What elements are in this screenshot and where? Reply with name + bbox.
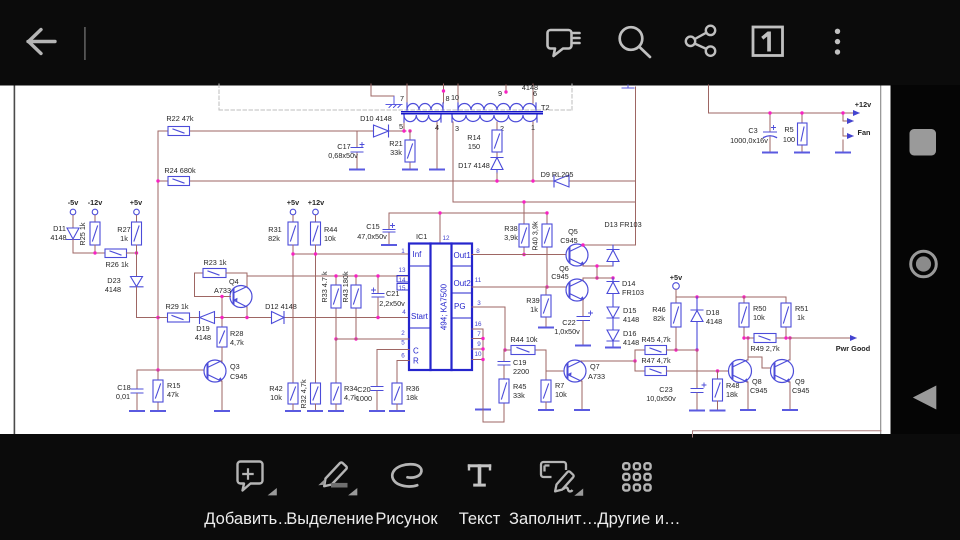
ground R48: [711, 410, 725, 412]
svg-text:+12v: +12v: [308, 198, 325, 207]
top bar divider: [84, 27, 86, 60]
svg-text:0,01: 0,01: [116, 392, 130, 401]
svg-text:9: 9: [498, 89, 502, 98]
toolbar fill-sign icon: [541, 462, 574, 491]
svg-text:C945: C945: [551, 272, 568, 281]
nav back triangle: [913, 386, 937, 410]
svg-text:T2: T2: [541, 103, 550, 112]
ground R7: [539, 409, 553, 411]
svg-text:A733: A733: [588, 372, 605, 381]
diode D17: [491, 158, 503, 174]
svg-text:11: 11: [475, 277, 482, 284]
wire Q5 emitter row y266: [583, 265, 613, 278]
isolation boundary dashed box: [219, 84, 572, 110]
transformer core: [402, 112, 542, 114]
svg-text:Рисунок: Рисунок: [375, 510, 438, 528]
svg-text:10k: 10k: [555, 390, 567, 399]
svg-text:C20: C20: [357, 385, 370, 394]
diode D13: [607, 245, 619, 266]
capacitor C19: [498, 350, 529, 379]
capacitor C15: [357, 213, 395, 244]
svg-text:D13 FR103: D13 FR103: [604, 220, 641, 229]
svg-text:10: 10: [451, 93, 459, 102]
wire R26 to D23 column: [127, 252, 137, 254]
diode D15: [607, 307, 619, 330]
wire Pwr Good: [776, 337, 855, 339]
wire +5v rail y297: [676, 296, 786, 298]
svg-text:D12 4148: D12 4148: [265, 302, 297, 311]
resistor R26: [105, 249, 129, 269]
junction dots +12v rail: [768, 111, 771, 114]
resistor R34: [331, 339, 358, 411]
wire pin4 ground stub: [436, 122, 438, 170]
svg-text:R45 4,7k: R45 4,7k: [641, 335, 671, 344]
diode D16: [607, 330, 619, 347]
svg-text:1k: 1k: [120, 234, 128, 243]
svg-text:47k: 47k: [167, 390, 179, 399]
svg-text:R34: R34: [344, 384, 357, 393]
capacitor C22: [554, 311, 592, 345]
resistor R7: [541, 380, 567, 410]
svg-text:R7: R7: [555, 381, 564, 390]
resistor R51: [781, 297, 808, 338]
resistor R25: [78, 222, 100, 253]
ground Fan: [836, 152, 850, 154]
svg-text:R14: R14: [467, 133, 480, 142]
transistor Q8: [729, 360, 752, 383]
resistor R40: [531, 213, 553, 287]
node +5v terminal right: [670, 273, 683, 297]
svg-text:4148: 4148: [50, 233, 66, 242]
resistor R49: [750, 334, 780, 354]
wire IC pin6 y357: [397, 360, 409, 383]
svg-text:1000,0x16v: 1000,0x16v: [730, 136, 768, 145]
back arrow icon: [28, 30, 55, 54]
svg-text:1k: 1k: [530, 305, 538, 314]
wire pin3 down to y202: [453, 122, 636, 202]
svg-text:16: 16: [474, 321, 482, 328]
diode D12: [272, 312, 285, 324]
resistor R42: [269, 383, 298, 411]
ground R21: [403, 169, 417, 171]
svg-text:D17 4148: D17 4148: [458, 161, 490, 170]
svg-text:7: 7: [400, 94, 404, 103]
svg-text:150: 150: [468, 142, 480, 151]
svg-text:C22: C22: [562, 318, 575, 327]
capacitor C17: [328, 131, 364, 168]
wire IC pin2 y339: [336, 338, 409, 340]
wire Out2 y287: [472, 286, 566, 288]
svg-text:-12v: -12v: [88, 198, 104, 207]
capacitor C3: [730, 113, 776, 151]
transistor Q3: [204, 360, 226, 382]
svg-text:3: 3: [455, 124, 459, 133]
ground top-left of T2: [386, 97, 402, 108]
transistor Q9: [771, 360, 794, 383]
svg-text:C19: C19: [513, 358, 526, 367]
svg-text:R50: R50: [753, 304, 766, 313]
resistor R14: [467, 122, 502, 157]
wire D23 down to y317: [137, 287, 159, 318]
svg-text:4148: 4148: [706, 317, 722, 326]
svg-text:494; KA7500: 494; KA7500: [440, 283, 449, 330]
diode D23: [130, 277, 143, 287]
diode D11: [67, 228, 80, 240]
wire R45-R47 left elbow: [635, 350, 645, 371]
junction PG node: [503, 348, 506, 351]
svg-text:13: 13: [398, 267, 406, 274]
svg-text:10k: 10k: [753, 313, 765, 322]
svg-text:R44: R44: [324, 225, 337, 234]
wire R47 right to Q8 base: [667, 370, 729, 372]
wire Q8 emitter ground: [747, 382, 748, 410]
svg-text:8: 8: [476, 248, 480, 255]
wire D9 loop vertical x635: [635, 87, 637, 245]
wire +12v riser and rail: [709, 85, 859, 113]
svg-text:R15: R15: [167, 381, 180, 390]
svg-text:C945: C945: [230, 372, 247, 381]
wire Out1 y254.5: [472, 254, 566, 256]
wire Q7 collector row y361: [581, 350, 635, 361]
wire R23 elbow and Q4 base: [195, 273, 231, 297]
svg-text:4148: 4148: [623, 315, 639, 324]
svg-text:7: 7: [477, 331, 481, 338]
transistor Q6: [566, 279, 588, 301]
svg-text:R: R: [413, 357, 419, 366]
svg-text:FR103: FR103: [622, 288, 644, 297]
svg-text:R25 1k: R25 1k: [78, 222, 87, 245]
wire R44 long vertical: [315, 245, 317, 383]
svg-text:PG: PG: [454, 302, 466, 311]
junction D17 bottom: [496, 173, 498, 181]
ground C18: [130, 410, 144, 412]
svg-text:5: 5: [399, 122, 403, 131]
ground C17: [350, 169, 364, 171]
svg-text:2,2x50v: 2,2x50v: [379, 299, 405, 308]
svg-text:82k: 82k: [268, 234, 280, 243]
svg-text:18k: 18k: [406, 393, 418, 402]
diode D19: [200, 312, 215, 324]
resistor R36: [392, 383, 419, 411]
resistor R24: [164, 166, 196, 186]
wire IC pins 16-7-9-10 stubs: [472, 329, 483, 409]
svg-text:33k: 33k: [390, 148, 402, 157]
ground R42: [286, 410, 300, 412]
resistor R44b 10k horizontal: [505, 335, 546, 355]
svg-text:C945: C945: [560, 236, 577, 245]
svg-text:C945: C945: [792, 386, 809, 395]
node -5v terminal: [68, 198, 79, 227]
capacitor C18: [116, 383, 143, 411]
resistor R39: [526, 287, 551, 327]
page number icon: [753, 27, 783, 56]
svg-text:8: 8: [445, 94, 449, 103]
svg-text:1,0x50v: 1,0x50v: [554, 327, 580, 336]
resistor R47 4,7k: [641, 356, 671, 376]
node +5v terminal mid: [287, 198, 300, 222]
transformer T2: [404, 103, 537, 122]
resistor R43: [341, 271, 361, 339]
svg-text:-5v: -5v: [68, 198, 79, 207]
svg-text:1: 1: [401, 248, 405, 255]
node +12v arrow: [858, 112, 859, 114]
ground Q9: [783, 409, 797, 411]
ground C15: [382, 244, 396, 246]
ground Q3: [215, 410, 229, 412]
junction pin5/R21: [402, 129, 405, 132]
svg-text:4: 4: [402, 309, 406, 316]
ground C20: [370, 410, 384, 412]
svg-text:C15: C15: [366, 222, 379, 231]
IC pin14/15 stub boxes: [397, 276, 409, 283]
wire R27 to D23: [136, 253, 138, 277]
svg-text:R32 4,7k: R32 4,7k: [299, 379, 308, 409]
wire pin1 stub down: [532, 122, 534, 181]
svg-text:D23: D23: [107, 276, 120, 285]
wire main row y317: [158, 317, 409, 319]
svg-text:18k: 18k: [726, 390, 738, 399]
wire top stubs transformer: [371, 84, 533, 104]
share icon: [686, 26, 715, 56]
svg-text:4,7k: 4,7k: [230, 338, 244, 347]
capacitor C21: [372, 276, 406, 318]
svg-text:4148: 4148: [105, 285, 121, 294]
nav recents square: [910, 129, 937, 156]
svg-text:D16: D16: [623, 329, 636, 338]
svg-text:D19: D19: [196, 324, 209, 333]
resistor R46: [652, 297, 681, 350]
bottom toolbar: [0, 434, 960, 540]
resistor R28: [217, 297, 244, 364]
svg-text:R31: R31: [268, 225, 281, 234]
svg-text:6: 6: [401, 353, 405, 360]
svg-text:R51: R51: [795, 304, 808, 313]
svg-text:Start: Start: [411, 312, 429, 321]
svg-text:D14: D14: [622, 279, 635, 288]
overflow dots icon: [835, 29, 840, 55]
svg-text:1000: 1000: [356, 394, 372, 403]
resistor R32: [299, 379, 321, 410]
resistor R45b 4,7k: [641, 335, 671, 355]
wire Q7 emitter ground: [581, 381, 582, 410]
ground D16: [606, 347, 620, 349]
wire R42 vertical: [292, 254, 294, 383]
svg-text:R42: R42: [269, 384, 282, 393]
svg-text:15: 15: [398, 285, 406, 292]
toolbar text icon: [468, 464, 491, 486]
resistor R33: [320, 271, 341, 339]
svg-text:82k: 82k: [653, 314, 665, 323]
svg-text:+5v: +5v: [287, 198, 300, 207]
svg-text:R38: R38: [504, 224, 517, 233]
svg-text:R5: R5: [784, 125, 793, 134]
capacitor C20: [356, 385, 383, 411]
svg-text:100: 100: [783, 135, 795, 144]
svg-text:10k: 10k: [324, 234, 336, 243]
svg-text:Out1: Out1: [454, 251, 472, 260]
svg-text:R29 1k: R29 1k: [165, 302, 188, 311]
node +12v terminal mid: [308, 198, 325, 222]
ground R34: [329, 410, 343, 412]
svg-text:C17: C17: [337, 142, 350, 151]
svg-text:R24 680k: R24 680k: [164, 166, 196, 175]
diode D18: [691, 297, 703, 350]
svg-text:4148: 4148: [195, 333, 211, 342]
svg-text:C23: C23: [659, 385, 672, 394]
svg-text:1: 1: [531, 123, 535, 132]
svg-text:+5v: +5v: [130, 198, 143, 207]
ground C23: [690, 410, 704, 412]
svg-text:9: 9: [477, 341, 481, 348]
ground fragment top right: [622, 85, 634, 88]
svg-text:R27: R27: [117, 225, 130, 234]
resistor R44 top: [311, 222, 338, 245]
resistor R31: [268, 222, 298, 245]
ground R36: [390, 410, 404, 412]
svg-text:47,0x50v: 47,0x50v: [357, 232, 387, 241]
svg-text:D10 4148: D10 4148: [360, 114, 392, 123]
wire H2 y181: [158, 180, 636, 182]
svg-text:R43 180k: R43 180k: [341, 271, 350, 303]
svg-text:Inf: Inf: [413, 250, 423, 259]
page left edge line: [14, 85, 16, 435]
diode D9: [554, 175, 569, 187]
sheet frame corner: [693, 431, 882, 437]
resistor R15: [153, 370, 180, 411]
svg-text:R49 2,7k: R49 2,7k: [750, 344, 780, 353]
resistor R50: [739, 297, 766, 338]
ground IC pins: [476, 409, 490, 411]
resistor R5: [783, 113, 807, 151]
ground R32: [308, 410, 322, 412]
wire Q3 base row y370: [137, 370, 204, 388]
svg-text:C945: C945: [750, 386, 767, 395]
svg-text:2: 2: [401, 330, 405, 337]
transistor Q4: [230, 286, 252, 308]
wire Q6 collector row y278: [583, 278, 613, 280]
svg-text:+5v: +5v: [670, 273, 683, 282]
svg-text:Текст: Текст: [459, 510, 501, 528]
wire Q8 collector: [747, 338, 748, 360]
svg-text:+12v: +12v: [855, 100, 872, 109]
svg-text:C: C: [413, 347, 419, 356]
svg-text:Out2: Out2: [454, 279, 472, 288]
svg-text:R33 4.7 k: R33 4.7 k: [320, 271, 329, 303]
svg-text:A733: A733: [214, 286, 231, 295]
resistor R22: [166, 114, 194, 136]
svg-text:33k: 33k: [513, 391, 525, 400]
android top bar: [0, 0, 960, 86]
search icon: [620, 27, 650, 57]
transistor Q7: [564, 360, 586, 382]
ground pin4: [430, 169, 444, 171]
wire D11 to R26: [73, 240, 105, 254]
svg-text:6: 6: [533, 89, 537, 98]
svg-text:R47 4,7k: R47 4,7k: [641, 356, 671, 365]
svg-text:D15: D15: [623, 306, 636, 315]
ground R39: [539, 327, 553, 329]
svg-text:10,0x50v: 10,0x50v: [646, 394, 676, 403]
wire PG pin3: [472, 307, 505, 350]
svg-text:Добавить…: Добавить…: [204, 510, 293, 528]
wire C23 branch: [696, 350, 698, 388]
svg-text:R36: R36: [406, 384, 419, 393]
ground Q7: [575, 409, 589, 411]
svg-text:D11: D11: [53, 224, 66, 233]
svg-text:R40 3,9k: R40 3,9k: [531, 221, 540, 251]
wire R7 branch: [546, 350, 564, 380]
wire R50 to R49: [744, 337, 754, 339]
svg-text:R45: R45: [513, 382, 526, 391]
ground C22: [576, 345, 590, 347]
diode D10: [374, 125, 389, 137]
svg-text:1k: 1k: [797, 313, 805, 322]
svg-text:Заполнит…: Заполнит…: [509, 510, 598, 528]
svg-text:Q5: Q5: [568, 227, 578, 236]
wire Q3 emitter to ground: [221, 381, 222, 411]
resistor R27: [117, 222, 141, 253]
diode D14: [607, 278, 619, 307]
svg-text:Q8: Q8: [752, 377, 762, 386]
wire Q3 collector: [221, 347, 222, 361]
resistor R45 33k: [499, 379, 526, 403]
svg-text:C3: C3: [748, 126, 757, 135]
resistor R23: [203, 258, 227, 278]
svg-text:R28: R28: [230, 329, 243, 338]
ground Q8: [741, 409, 755, 411]
svg-text:10: 10: [474, 351, 482, 358]
op-amp U1 KA7500 IC body: [409, 244, 472, 371]
resistor R29: [165, 302, 189, 322]
svg-text:R44 10k: R44 10k: [510, 335, 538, 344]
svg-text:R39: R39: [526, 296, 539, 305]
svg-text:Fan: Fan: [858, 128, 871, 137]
right android nav bar: [891, 85, 960, 540]
wire IC pin5 y347: [377, 350, 409, 387]
wire pin5 stub: [403, 122, 405, 131]
wire H1 y131: [158, 130, 406, 132]
svg-text:R46: R46: [652, 305, 665, 314]
transistor Q5: [566, 244, 588, 266]
svg-text:Q9: Q9: [795, 377, 805, 386]
svg-text:3,9k: 3,9k: [504, 233, 518, 242]
wire Q6 emitter to C22: [582, 300, 584, 316]
svg-text:Другие и…: Другие и…: [597, 510, 680, 528]
svg-text:14: 14: [398, 277, 406, 284]
wire R45b right y350: [667, 349, 698, 351]
svg-text:10k: 10k: [270, 393, 282, 402]
svg-text:Q4: Q4: [229, 277, 239, 286]
toolbar more-grid icon: [623, 463, 650, 490]
toolbar add-comment icon: [238, 462, 263, 491]
svg-text:IC1: IC1: [416, 232, 427, 241]
svg-text:C18: C18: [117, 383, 130, 392]
ground R15: [151, 410, 165, 412]
wire feedback vertical x158: [157, 131, 159, 370]
toolbar draw icon: [392, 464, 421, 486]
svg-text:Q7: Q7: [590, 362, 600, 371]
junction top dots: [442, 89, 445, 92]
node Fan: [843, 113, 870, 151]
resistor R21: [389, 131, 415, 169]
resistor R38: [504, 202, 529, 255]
wire elbow to R45 bottom: [483, 403, 504, 422]
wire R31 to IC pin1: [293, 245, 409, 254]
wire pin13 rail y276: [247, 275, 409, 277]
svg-text:R21: R21: [389, 139, 402, 148]
wire C15 to pin12: [389, 213, 547, 243]
svg-text:12: 12: [442, 235, 450, 242]
